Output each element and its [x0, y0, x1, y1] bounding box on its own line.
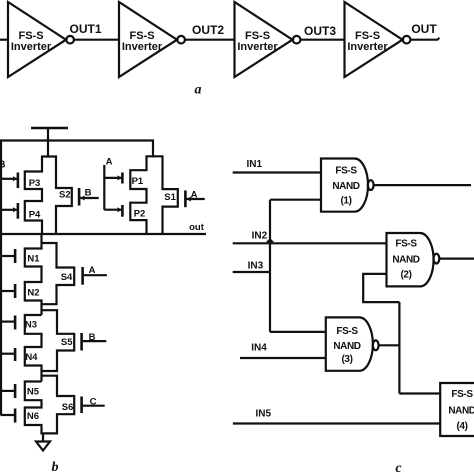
wire OUT2 — [185, 39, 235, 41]
svg-text:OUT2: OUT2 — [192, 23, 224, 37]
bubble U3 output — [293, 36, 301, 44]
svg-text:IN1: IN1 — [247, 159, 263, 170]
wire IN3 — [233, 271, 271, 273]
inverter U2 FS-S Inverter — [119, 2, 177, 77]
svg-text:FS-S: FS-S — [451, 389, 473, 400]
inverter U3 FS-S Inverter — [235, 2, 293, 77]
svg-text:B: B — [85, 187, 92, 198]
wire IN4 — [240, 357, 326, 359]
svg-text:A: A — [191, 190, 198, 201]
svg-text:NAND: NAND — [333, 341, 360, 352]
svg-text:S5: S5 — [61, 337, 73, 348]
wire left P-trunk — [25, 155, 72, 234]
svg-text:S4: S4 — [61, 272, 73, 283]
wire OUT1 — [74, 39, 120, 41]
wire VDD rail — [0, 141, 153, 158]
nand U8 FS-S NAND (4) — [440, 383, 474, 436]
wire left P-trunk stem — [47, 141, 49, 158]
wire to U8 upper input — [399, 392, 440, 394]
svg-text:NAND: NAND — [332, 181, 359, 192]
svg-text:S2: S2 — [59, 190, 71, 201]
svg-text:OUT3: OUT3 — [304, 24, 336, 38]
svg-text:P2: P2 — [134, 208, 146, 219]
transistor N6 — [1, 409, 39, 423]
wire A input stub — [103, 165, 105, 210]
wire U5 lower input — [270, 199, 321, 201]
switch S5 — [61, 333, 106, 351]
svg-text:P3: P3 — [29, 178, 41, 189]
wire vertical branch IN2-IN3 — [269, 200, 271, 332]
svg-text:P4: P4 — [29, 210, 41, 221]
svg-text:Inverter: Inverter — [347, 41, 388, 53]
svg-text:IN4: IN4 — [251, 343, 267, 354]
svg-text:(2): (2) — [400, 270, 411, 281]
svg-text:S1: S1 — [164, 192, 176, 203]
svg-text:P1: P1 — [132, 176, 144, 187]
svg-text:b: b — [52, 460, 59, 474]
svg-text:N3: N3 — [25, 320, 37, 331]
wire to U7 upper input — [270, 331, 326, 333]
svg-text:NAND: NAND — [448, 405, 474, 416]
nand U5 FS-S NAND (1) — [321, 159, 368, 212]
svg-text:A: A — [106, 156, 113, 167]
transistor N2 — [1, 284, 40, 299]
switch S2 — [59, 188, 99, 206]
svg-text:OUT1: OUT1 — [69, 22, 101, 36]
svg-text:B: B — [89, 332, 96, 343]
wire IN2 — [233, 242, 387, 244]
transistor P4 — [1, 203, 41, 221]
svg-text:(4): (4) — [456, 421, 467, 432]
wire power stem — [47, 128, 49, 142]
wire N-trunk group3 — [25, 375, 74, 435]
wire input to inverter 1 — [0, 39, 9, 41]
bubble U5 output — [368, 180, 374, 190]
svg-text:Inverter: Inverter — [237, 41, 278, 53]
svg-text:out: out — [189, 222, 205, 233]
power supply bar — [31, 127, 68, 130]
wire feedback vertical — [398, 302, 400, 393]
transistor N5 — [1, 384, 40, 398]
transistor P3 — [1, 173, 40, 189]
transistor P1 — [104, 173, 144, 188]
wire IN1 — [233, 171, 321, 173]
transistor N3 — [1, 316, 37, 331]
nand U7 FS-S NAND (3) — [326, 317, 373, 370]
switch S4 — [61, 267, 107, 285]
wire N-trunk group1 — [25, 234, 74, 315]
transistor N1 — [1, 249, 40, 265]
svg-text:IN5: IN5 — [256, 409, 272, 420]
bubble U6 output — [434, 254, 440, 264]
nand U6 FS-S NAND (2) — [387, 233, 434, 286]
svg-text:N1: N1 — [27, 254, 40, 265]
inverter U4 FS-S Inverter — [345, 2, 403, 77]
switch S6 — [62, 397, 105, 414]
wire OUT3 — [301, 39, 346, 41]
wire U6 output — [439, 258, 474, 260]
svg-text:IN3: IN3 — [248, 261, 264, 272]
wire OUT — [411, 38, 440, 40]
svg-text:S6: S6 — [62, 402, 74, 413]
svg-text:FS-S: FS-S — [395, 238, 417, 249]
svg-text:NAND: NAND — [392, 254, 419, 265]
svg-text:FS-S: FS-S — [336, 326, 358, 337]
transistor N4 — [1, 348, 38, 363]
bubble U7 output — [373, 340, 379, 350]
svg-text:OUT: OUT — [411, 22, 437, 36]
svg-text:Inverter: Inverter — [122, 41, 163, 53]
svg-text:N6: N6 — [27, 411, 39, 422]
wire IN5 — [233, 422, 440, 424]
svg-text:C: C — [90, 397, 97, 408]
switch S1 — [164, 190, 204, 207]
svg-text:FS-S: FS-S — [335, 166, 357, 177]
svg-text:A: A — [89, 265, 96, 276]
wire N-trunk group2 — [25, 309, 74, 381]
wire right P-trunk — [130, 155, 178, 234]
transistor P2 — [104, 205, 145, 219]
wire out rail — [0, 233, 206, 235]
inverter U1 FS-S Inverter — [8, 2, 66, 77]
wire U5 output — [374, 184, 471, 186]
bubble U1 output — [66, 36, 74, 44]
svg-text:(3): (3) — [341, 354, 352, 365]
bubble U4 output — [403, 36, 411, 44]
wire ground stem — [42, 433, 44, 441]
svg-text:N5: N5 — [27, 387, 40, 398]
svg-text:(1): (1) — [340, 195, 351, 206]
svg-text:Inverter: Inverter — [11, 41, 52, 53]
ground — [36, 442, 50, 451]
svg-text:N4: N4 — [25, 352, 38, 363]
junction at IN2 — [266, 238, 274, 242]
wire left gate bus — [0, 140, 2, 416]
wire U6 lower input feedback — [363, 274, 399, 302]
svg-text:a: a — [195, 83, 202, 98]
bubble U2 output — [177, 36, 185, 44]
svg-text:N2: N2 — [27, 288, 39, 299]
svg-text:B: B — [0, 160, 5, 171]
svg-text:IN2: IN2 — [252, 230, 268, 241]
svg-text:c: c — [395, 461, 402, 474]
wire U7 output — [379, 344, 400, 346]
